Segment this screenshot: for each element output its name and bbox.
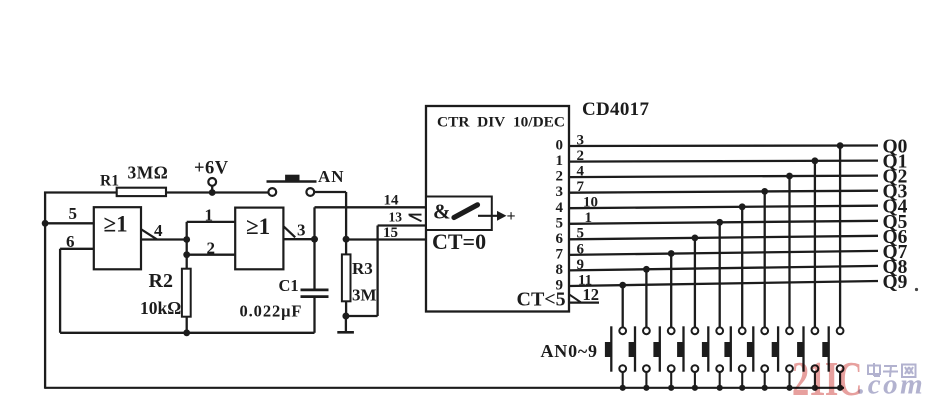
wire pin 2 input <box>187 254 236 256</box>
wire output row Q2 <box>569 176 878 178</box>
wire output row Q1 <box>569 161 878 162</box>
node junction on Q5 row <box>716 219 723 226</box>
pushbutton AN1 (terminals, bar, cap, stub, bus junction) <box>797 326 818 391</box>
power terminal +6V circle <box>208 178 216 186</box>
svg-text:4: 4 <box>154 221 163 240</box>
node junction on Q8 row <box>643 266 650 273</box>
wire pin 4 output <box>141 238 187 240</box>
wire AN output horizontal <box>314 191 346 193</box>
wire R3 bottom to enable riser <box>346 315 378 317</box>
wire drop from Q3 to button <box>764 191 766 327</box>
switch AN right terminal <box>306 188 314 196</box>
svg-text:7: 7 <box>577 179 585 195</box>
clock arrow head <box>497 211 507 221</box>
svg-text:2: 2 <box>207 239 216 258</box>
pushbutton AN7 (terminals, bar, cap, stub, bus junction) <box>653 326 674 391</box>
svg-text:5: 5 <box>577 226 585 242</box>
wire top rail middle segment <box>166 191 269 193</box>
wire enable line to pin 13 <box>378 224 426 226</box>
svg-text:10kΩ: 10kΩ <box>140 298 181 318</box>
wire drop from Q0 to button <box>839 146 841 328</box>
wire pin 1 input <box>187 221 236 223</box>
pin 14 dynamic input wedge hypotenuse <box>410 215 422 221</box>
wire drop from Q4 to button <box>741 207 743 327</box>
svg-text:≥1: ≥1 <box>104 212 128 237</box>
node junction on Q6 row <box>692 235 699 242</box>
pin 12 polarity wedge <box>569 294 581 302</box>
svg-text:6: 6 <box>556 231 564 247</box>
wire output row Q9 <box>569 281 878 286</box>
node junction on Q1 row <box>812 157 819 164</box>
pushbutton AN6 (terminals, bar, cap, stub, bus junction) <box>677 326 698 391</box>
wire node vertical pin1-pin2-R2 <box>186 222 188 269</box>
svg-text:15: 15 <box>383 225 398 241</box>
svg-text:4: 4 <box>556 200 564 216</box>
wire drop from Q5 to button <box>719 222 721 327</box>
node junction pin 2 <box>183 251 190 258</box>
svg-text:7: 7 <box>556 247 564 263</box>
svg-text:9: 9 <box>577 257 585 273</box>
wire output row Q8 <box>569 266 878 271</box>
pushbutton AN9 (terminals, bar, cap, stub, bus junction) <box>605 326 626 391</box>
wire jog up from pin 3 node <box>313 207 315 239</box>
node junction on Q0 row <box>837 142 844 149</box>
wire drop from Q9 to button <box>622 285 624 327</box>
node junction on Q4 row <box>739 203 746 210</box>
wire pin 3 output <box>283 238 314 240</box>
svg-text:3M: 3M <box>352 286 377 305</box>
capacitor C1 bottom plate <box>301 295 329 298</box>
svg-text:8: 8 <box>556 262 564 278</box>
wire +6V stem <box>211 186 213 193</box>
node junction AN / R3 top <box>343 236 350 243</box>
wire AN output vertical to R3 node <box>345 192 347 239</box>
node junction on Q7 row <box>668 250 675 257</box>
gate U1 output inversion wedge <box>141 229 157 239</box>
resistor R1 <box>117 188 166 196</box>
svg-text:Q9: Q9 <box>883 272 908 293</box>
node junction pin 4 / node A <box>183 236 190 243</box>
wire output row Q3 <box>569 191 878 193</box>
pushbutton AN0 (terminals, bar, cap, stub, bus junction) <box>822 326 843 391</box>
wire output row Q5 <box>569 221 878 224</box>
wire R3 top lead <box>345 239 347 254</box>
stray period after Q9 <box>915 288 918 291</box>
wire top rail left segment <box>44 191 118 193</box>
pushbutton AN5 (terminals, bar, cap, stub, bus junction) <box>702 326 723 391</box>
watermark chinese characters <box>868 363 916 377</box>
switch AN left terminal <box>268 188 276 196</box>
pin 14 dynamic input wedge top edge <box>409 214 422 216</box>
svg-text:0: 0 <box>556 138 564 154</box>
wire drop from Q1 to button <box>814 161 816 327</box>
svg-text:5: 5 <box>556 215 564 231</box>
resistor R3 <box>342 254 351 301</box>
node junction pin 3 / C1 top <box>311 236 318 243</box>
pushbutton AN2 (terminals, bar, cap, stub, bus junction) <box>772 326 793 391</box>
svg-text:2: 2 <box>556 169 564 185</box>
svg-text:3: 3 <box>297 221 306 240</box>
gate U2 output inversion wedge <box>283 226 295 237</box>
watermark .com <box>858 369 925 401</box>
svg-text:AN0~9: AN0~9 <box>541 341 598 361</box>
svg-text:5: 5 <box>69 204 78 223</box>
wire R3 bottom lead <box>345 301 347 316</box>
wire C1 bottom riser <box>313 296 315 333</box>
wire enable riser vertical <box>376 226 378 317</box>
svg-text:C1: C1 <box>279 276 299 295</box>
IC clock input inner box (&) <box>426 197 492 231</box>
wire pin 6 input <box>60 248 94 250</box>
wire drop from Q2 to button <box>788 176 790 327</box>
svg-text:CT=0: CT=0 <box>432 229 486 254</box>
svg-text:4: 4 <box>577 164 585 180</box>
svg-text:.com: .com <box>858 369 925 401</box>
node junction R2 on mid bus <box>183 329 190 336</box>
svg-text:CTR DIV 10/DEC: CTR DIV 10/DEC <box>437 115 565 131</box>
svg-text:3: 3 <box>556 184 564 200</box>
node junction on Q3 row <box>761 188 768 195</box>
capacitor C1 top plate <box>301 289 329 292</box>
wire output row Q0 <box>569 144 878 147</box>
svg-text:0.022μF: 0.022μF <box>240 302 303 321</box>
pushbutton AN8 (terminals, bar, cap, stub, bus junction) <box>629 326 650 391</box>
wire output row Q4 <box>569 206 878 209</box>
IC U3 CD4017 box <box>426 106 569 312</box>
resistor R2 <box>182 269 191 317</box>
wire drop from Q8 to button <box>645 269 647 327</box>
svg-text:11: 11 <box>578 272 592 288</box>
op-amp gate U1 box (NOR >=1) <box>94 207 141 269</box>
svg-text:CD4017: CD4017 <box>582 99 649 120</box>
pin 12 stub wire <box>569 302 599 304</box>
svg-text:3MΩ: 3MΩ <box>128 163 169 183</box>
wire drop from Q6 to button <box>694 238 696 327</box>
node junction pin5 on left rail <box>42 220 49 227</box>
wire drop from Q7 to button <box>670 254 672 328</box>
op-amp gate U2 box (NOR >=1) <box>235 208 283 270</box>
svg-text:6: 6 <box>577 241 585 257</box>
svg-text:21IC: 21IC <box>792 354 862 406</box>
svg-text:R2: R2 <box>149 270 173 292</box>
svg-text:1: 1 <box>556 153 564 169</box>
wire feedback vertical from pin 6 <box>59 249 61 333</box>
pushbutton AN3 (terminals, bar, cap, stub, bus junction) <box>747 326 768 391</box>
pushbutton AN4 (terminals, bar, cap, stub, bus junction) <box>724 326 745 391</box>
wire R2 bottom lead <box>186 317 188 333</box>
svg-text:2: 2 <box>577 148 585 164</box>
wire left vertical rail <box>44 192 46 389</box>
svg-text:+: + <box>507 208 516 225</box>
wire output row Q6 <box>569 236 878 240</box>
wire ground riser <box>345 316 347 331</box>
watermark 21IC <box>792 354 862 406</box>
svg-text:10: 10 <box>583 195 598 211</box>
svg-text:&: & <box>433 200 451 224</box>
svg-text:1: 1 <box>205 206 214 225</box>
clock arrow shaft <box>478 215 497 217</box>
wire bottom common bus <box>45 387 844 389</box>
node junction on Q9 row <box>619 282 626 289</box>
svg-text:6: 6 <box>66 232 75 251</box>
switch AN cap <box>285 175 299 181</box>
svg-text:9: 9 <box>556 278 564 294</box>
wire pin 5 input <box>45 222 94 224</box>
svg-text:AN: AN <box>318 167 345 186</box>
wire reset line to pin 15 <box>346 238 426 240</box>
wire clock line to pin 14 <box>315 206 427 208</box>
svg-text:R1: R1 <box>100 173 119 190</box>
wire feedback mid bus <box>60 332 314 334</box>
svg-text:13: 13 <box>389 210 403 225</box>
svg-text:≥1: ≥1 <box>246 214 270 239</box>
node junction on Q2 row <box>786 173 793 180</box>
clock edge flag symbol <box>454 205 478 218</box>
node junction R3 bottom <box>342 313 349 320</box>
node junction +6V stem on top rail <box>209 189 216 196</box>
switch AN bar <box>267 180 317 182</box>
capacitor C1 top lead <box>313 239 315 289</box>
svg-text:3: 3 <box>577 132 585 148</box>
svg-text:1: 1 <box>585 210 593 226</box>
svg-text:R3: R3 <box>352 259 373 278</box>
svg-text:14: 14 <box>384 193 400 209</box>
wire output row Q7 <box>569 251 878 255</box>
ground symbol bar <box>337 331 354 334</box>
svg-text:+6V: +6V <box>194 159 229 179</box>
